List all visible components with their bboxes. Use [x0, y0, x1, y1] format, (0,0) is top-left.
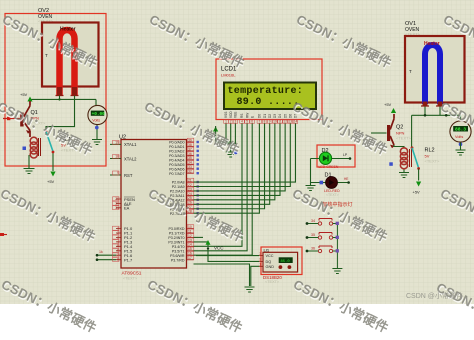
- svg-text:P3.4/T0: P3.4/T0: [172, 245, 185, 249]
- svg-text:13: 13: [188, 238, 192, 242]
- svg-text:33: 33: [188, 165, 192, 169]
- svg-text:<TEXT>: <TEXT>: [265, 280, 280, 284]
- svg-text:P0.1/AD1: P0.1/AD1: [169, 145, 184, 149]
- svg-text:GND: GND: [266, 265, 275, 269]
- svg-text:36: 36: [311, 247, 315, 251]
- svg-text:34: 34: [188, 161, 192, 165]
- svg-text:39: 39: [188, 138, 192, 142]
- svg-text:22: 22: [188, 183, 192, 187]
- svg-text:12: 12: [188, 234, 192, 238]
- svg-text:89.0 .....: 89.0 .....: [237, 97, 300, 108]
- svg-text:14: 14: [294, 120, 298, 124]
- svg-text:1: 1: [225, 120, 227, 124]
- svg-text:VCC: VCC: [266, 254, 274, 258]
- svg-text:DQ: DQ: [266, 260, 272, 264]
- svg-text:13: 13: [289, 120, 293, 124]
- svg-text:23: 23: [188, 187, 192, 191]
- svg-text:Heater: Heater: [424, 41, 440, 47]
- svg-text:36: 36: [188, 152, 192, 156]
- svg-text:<TEXT>: <TEXT>: [425, 159, 441, 164]
- svg-text:D4: D4: [278, 114, 282, 118]
- svg-text:<TEXT>: <TEXT>: [396, 136, 412, 141]
- svg-text:VEE: VEE: [234, 112, 238, 118]
- svg-text:temperature:: temperature:: [228, 86, 304, 97]
- svg-text:D1: D1: [263, 114, 267, 118]
- svg-text:9: 9: [269, 120, 271, 124]
- svg-text:35: 35: [188, 156, 192, 160]
- svg-text:RW: RW: [245, 113, 249, 118]
- svg-text:10: 10: [188, 225, 192, 229]
- svg-text:XTAL2: XTAL2: [124, 156, 137, 161]
- svg-text:15: 15: [188, 247, 192, 251]
- svg-text:14: 14: [188, 243, 192, 247]
- svg-text:<TEXT>: <TEXT>: [326, 193, 339, 197]
- svg-text:P3.2/INT0: P3.2/INT0: [168, 236, 184, 240]
- svg-text:Heater: Heater: [60, 27, 76, 33]
- svg-text:P3.5/T1: P3.5/T1: [172, 250, 185, 254]
- svg-text:VSS: VSS: [224, 112, 228, 118]
- svg-text:+5V: +5V: [47, 179, 55, 184]
- svg-text:+5V: +5V: [384, 102, 392, 107]
- svg-text:LED-GREEN: LED-GREEN: [319, 165, 339, 169]
- svg-text:2: 2: [259, 258, 261, 262]
- svg-text:EA: EA: [124, 206, 130, 211]
- svg-text:T: T: [45, 53, 48, 58]
- svg-text:8: 8: [264, 120, 266, 124]
- svg-text:<TEXT>: <TEXT>: [123, 277, 138, 281]
- svg-text:32: 32: [188, 170, 192, 174]
- svg-text:34: 34: [311, 219, 315, 223]
- svg-text:2: 2: [230, 120, 232, 124]
- svg-text:LP: LP: [343, 153, 348, 157]
- svg-text:11: 11: [278, 120, 282, 124]
- svg-text:P3.3/INT1: P3.3/INT1: [168, 241, 184, 245]
- svg-text:P3.6/WR: P3.6/WR: [170, 254, 185, 258]
- svg-text:D3: D3: [273, 114, 277, 118]
- svg-text:38: 38: [188, 143, 192, 147]
- svg-text:16: 16: [188, 252, 192, 256]
- svg-text:6: 6: [251, 120, 253, 124]
- svg-text:+0.00: +0.00: [92, 112, 106, 117]
- svg-text:P0.0/AD0: P0.0/AD0: [169, 141, 184, 145]
- svg-text:P0.3/AD3: P0.3/AD3: [169, 154, 184, 158]
- svg-text:RS: RS: [240, 114, 244, 118]
- svg-text:Volts: Volts: [92, 119, 100, 123]
- svg-text:VCC: VCC: [214, 246, 224, 251]
- svg-text:P0.7/AD7: P0.7/AD7: [169, 172, 184, 176]
- svg-text:P1.7: P1.7: [124, 257, 133, 262]
- svg-text:17: 17: [188, 256, 192, 260]
- svg-text:37: 37: [188, 147, 192, 151]
- svg-text:RST: RST: [124, 173, 133, 178]
- svg-text:Volts: Volts: [455, 135, 463, 139]
- svg-text:7: 7: [259, 120, 261, 124]
- svg-text:P0.6/AD6: P0.6/AD6: [169, 167, 184, 171]
- svg-text:12: 12: [283, 120, 287, 124]
- svg-text:P2.0/A8: P2.0/A8: [172, 181, 185, 185]
- svg-text:35: 35: [311, 233, 315, 237]
- svg-text:XTAL1: XTAL1: [124, 142, 137, 147]
- svg-text:3: 3: [235, 120, 237, 124]
- svg-text:18: 18: [115, 155, 119, 159]
- svg-text:+5V: +5V: [20, 92, 28, 97]
- svg-text:P3.0/RXD: P3.0/RXD: [169, 227, 185, 231]
- svg-text:P0.5/AD5: P0.5/AD5: [169, 163, 184, 167]
- svg-text:P3.7/RD: P3.7/RD: [171, 258, 185, 262]
- svg-text:1: 1: [259, 263, 261, 267]
- svg-text:P0.2/AD2: P0.2/AD2: [169, 150, 184, 154]
- svg-text:5: 5: [246, 120, 248, 124]
- svg-text:+5V: +5V: [413, 190, 421, 195]
- svg-text:D0: D0: [258, 114, 262, 118]
- svg-text:21: 21: [188, 178, 192, 182]
- svg-text:88.3: 88.3: [455, 127, 466, 133]
- svg-text:VDD: VDD: [229, 111, 233, 118]
- svg-text:1k: 1k: [99, 250, 103, 254]
- svg-text:24: 24: [188, 192, 192, 196]
- svg-text:P2.1/A9: P2.1/A9: [172, 185, 185, 189]
- svg-text:3: 3: [259, 252, 261, 256]
- svg-text:10: 10: [273, 120, 277, 124]
- svg-text:P3.1/TXD: P3.1/TXD: [169, 232, 185, 236]
- svg-text:LM016L: LM016L: [221, 73, 236, 78]
- svg-text:E: E: [250, 116, 254, 118]
- svg-text:4: 4: [241, 120, 243, 124]
- svg-text:T: T: [409, 69, 412, 74]
- svg-text:19: 19: [115, 141, 119, 145]
- svg-text:D2: D2: [268, 114, 272, 118]
- svg-text:D5: D5: [283, 114, 287, 118]
- svg-text:HE: HE: [344, 177, 348, 181]
- svg-text:11: 11: [188, 229, 192, 233]
- svg-text:85.0: 85.0: [281, 260, 291, 264]
- svg-text:P0.4/AD4: P0.4/AD4: [169, 158, 184, 162]
